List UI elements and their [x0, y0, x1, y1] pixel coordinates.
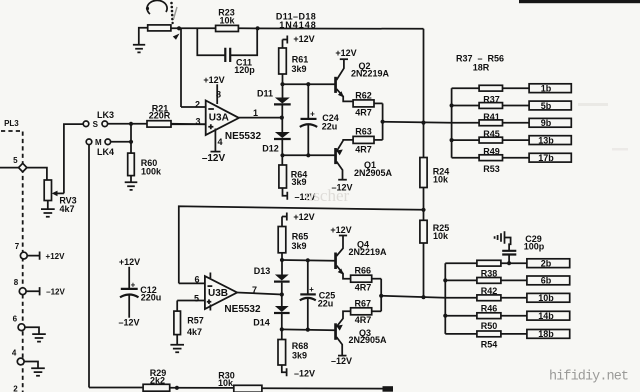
- resistor R49: [452, 137, 529, 156]
- diode D11: [257, 88, 291, 117]
- output node lower stage: [379, 279, 445, 312]
- svg-text:3k9: 3k9: [292, 350, 307, 360]
- svg-text:6: 6: [13, 314, 18, 323]
- output terminal 10b: [527, 293, 570, 303]
- wire to U3A pin2: [180, 28, 182, 107]
- resistor R21: [131, 104, 206, 128]
- svg-text:D13: D13: [254, 266, 271, 276]
- svg-text:18R: 18R: [473, 63, 490, 73]
- svg-text:4: 4: [217, 137, 222, 147]
- svg-text:R62: R62: [355, 90, 372, 100]
- svg-text:NE5532: NE5532: [224, 304, 261, 315]
- faint smudge right: [578, 103, 608, 106]
- transistor Q3: [331, 311, 387, 366]
- svg-text:5b: 5b: [541, 101, 552, 111]
- svg-text:7: 7: [252, 285, 257, 295]
- link LK3 S: [83, 110, 131, 129]
- svg-text:2N2905A: 2N2905A: [354, 168, 393, 178]
- capacitor C24: [300, 84, 339, 155]
- diode D14: [253, 295, 289, 330]
- svg-text:8: 8: [14, 278, 19, 287]
- svg-text:2b: 2b: [541, 259, 552, 269]
- U3B pin6: [179, 275, 205, 285]
- U3A pin8 +12V: [203, 75, 224, 104]
- svg-text:1: 1: [253, 108, 258, 118]
- output terminal 6b: [527, 276, 570, 286]
- svg-text:–12V: –12V: [331, 356, 352, 366]
- output terminal 13b: [529, 135, 571, 145]
- svg-text:U3A: U3A: [209, 113, 229, 124]
- svg-text:3: 3: [195, 117, 200, 127]
- ground (R60): [125, 182, 138, 190]
- svg-text:2N2219A: 2N2219A: [351, 68, 390, 78]
- resistor R38: [445, 260, 527, 278]
- svg-text:+: +: [310, 109, 315, 118]
- node pin7 junction: [280, 292, 284, 296]
- svg-text:4k7: 4k7: [187, 327, 202, 337]
- resistor R42: [445, 278, 527, 296]
- svg-text:8: 8: [216, 90, 221, 100]
- op-amp U3A: [206, 101, 262, 143]
- U3A pin3: [171, 117, 206, 127]
- svg-text:R67: R67: [355, 298, 372, 308]
- svg-text:D11: D11: [257, 88, 273, 98]
- bottom wire (inverting channel input): [89, 388, 383, 389]
- resistor R22 (unlabeled, input shunt): [139, 25, 171, 45]
- label D11-D18 1N4148: [276, 12, 317, 30]
- output terminal 17b: [529, 153, 571, 163]
- svg-text:R50: R50: [481, 321, 498, 331]
- transistor Q2: [334, 48, 389, 102]
- diode D13: [254, 266, 290, 295]
- svg-text:10k: 10k: [219, 15, 235, 25]
- resistor R61: [279, 48, 309, 98]
- output terminal 2b: [527, 259, 570, 269]
- svg-text:R53: R53: [483, 164, 500, 174]
- svg-text:2k2: 2k2: [150, 376, 165, 386]
- svg-text:5: 5: [194, 293, 199, 303]
- capacitor C11: [197, 28, 257, 75]
- wire feedback top node: [171, 27, 216, 29]
- ground (R57): [170, 345, 184, 353]
- svg-text:LK3: LK3: [97, 110, 114, 120]
- PL3 pin 6 ground: [13, 314, 46, 341]
- U3A pin4 -12V: [202, 129, 226, 165]
- svg-text:2N2219A: 2N2219A: [348, 247, 387, 257]
- svg-text:120p: 120p: [234, 65, 255, 75]
- svg-text:hifidiy.net: hifidiy.net: [549, 370, 629, 385]
- resistor R24: [420, 158, 449, 221]
- node Q2 base / wire: [280, 82, 334, 86]
- node R21/R60 junction: [129, 122, 133, 153]
- resistor R53: [452, 155, 529, 174]
- label R37 - R56 18R: [456, 53, 504, 72]
- resistor R54: [445, 331, 527, 349]
- link LK4 M: [86, 138, 131, 157]
- node Q4 base / wire: [280, 258, 335, 263]
- svg-text:4k7: 4k7: [59, 204, 74, 214]
- svg-text:6: 6: [194, 275, 199, 285]
- resistor R62: [353, 90, 383, 117]
- svg-text:R68: R68: [292, 341, 309, 351]
- svg-text:+12V: +12V: [46, 252, 66, 261]
- wire feedback vertical right: [421, 29, 425, 158]
- transistor Q1: [331, 140, 392, 193]
- output terminal 14b: [527, 311, 570, 321]
- U3B pin5: [177, 293, 205, 303]
- resistor R66: [351, 265, 382, 292]
- wire M-link down to bottom: [88, 145, 90, 388]
- svg-text:10k: 10k: [433, 231, 449, 241]
- op-amp U3B: [205, 273, 261, 316]
- svg-text:+: +: [309, 285, 314, 294]
- svg-text:14b: 14b: [538, 311, 554, 321]
- resistor R57: [174, 301, 204, 345]
- PL3 pin 8 -12V: [14, 278, 66, 296]
- svg-text:+12V: +12V: [330, 225, 351, 235]
- output terminal 1b: [529, 84, 571, 94]
- output terminal 5b: [529, 101, 571, 111]
- resistor R45: [452, 120, 529, 139]
- capacitor C25: [300, 260, 335, 329]
- U3A pin1 output wire: [239, 108, 284, 120]
- ground (RV3): [41, 201, 55, 217]
- wire R23 to node B: [238, 27, 423, 30]
- svg-text:1N4148: 1N4148: [279, 20, 317, 30]
- svg-text:U3B: U3B: [208, 288, 228, 299]
- svg-text:100k: 100k: [141, 166, 162, 176]
- svg-text:4R7: 4R7: [355, 282, 372, 292]
- node Q3 base / wire: [280, 327, 335, 331]
- pencil scribble mark top-left: [146, 0, 177, 24]
- resistor R29: [143, 368, 170, 391]
- U3B pin7 output: [237, 285, 282, 295]
- connector PL3 dashed outline: [1, 119, 23, 392]
- resistor stub cut at edge: [383, 386, 394, 392]
- svg-text:5: 5: [13, 156, 18, 165]
- svg-text:220R: 220R: [149, 110, 171, 120]
- svg-text:220u: 220u: [141, 293, 162, 303]
- svg-text:R63: R63: [355, 127, 372, 137]
- svg-text:22u: 22u: [322, 121, 338, 131]
- diode D12: [262, 118, 290, 165]
- svg-text:R57: R57: [187, 315, 204, 325]
- resistor R68: [278, 329, 315, 378]
- svg-text:R54: R54: [481, 339, 498, 349]
- U3A pin2: [181, 100, 206, 110]
- svg-text:LK4: LK4: [97, 147, 114, 157]
- PL3 pin 7 +12V: [15, 242, 65, 261]
- svg-text:+12V: +12V: [203, 75, 224, 85]
- svg-text:3k9: 3k9: [291, 64, 306, 74]
- node junction with arrow mark: [173, 26, 181, 40]
- svg-text:2N2905A: 2N2905A: [348, 335, 387, 345]
- svg-text:R46: R46: [481, 303, 498, 313]
- capacitor C12: [118, 257, 161, 328]
- svg-text:–12V: –12V: [46, 287, 65, 296]
- svg-text:4R7: 4R7: [355, 315, 372, 325]
- wire feedback to U3B: [179, 206, 424, 283]
- svg-text:–12V: –12V: [118, 318, 139, 328]
- transistor Q4: [330, 225, 387, 279]
- svg-text:–12V: –12V: [202, 153, 226, 164]
- svg-text:18b: 18b: [538, 329, 554, 339]
- svg-text:9b: 9b: [541, 118, 552, 128]
- svg-text:+12V: +12V: [293, 34, 314, 44]
- svg-text:+12V: +12V: [119, 257, 140, 267]
- svg-text:+: +: [131, 280, 136, 289]
- +12V rail top of R65: [282, 212, 315, 227]
- svg-text:7: 7: [15, 242, 20, 251]
- svg-text:22u: 22u: [318, 299, 334, 309]
- node R24/R25 junction: [421, 208, 425, 212]
- PL3 pin 5: [0, 156, 47, 180]
- node R29/R30 junction: [175, 386, 179, 390]
- svg-text:3k9: 3k9: [291, 241, 306, 251]
- svg-text:+12V: +12V: [335, 48, 356, 58]
- svg-text:D12: D12: [262, 144, 279, 154]
- PL3 pin 4 ground: [12, 349, 45, 376]
- resistor R65: [278, 227, 308, 275]
- resistor R64: [279, 165, 316, 202]
- resistor R60: [128, 153, 162, 182]
- svg-text:M: M: [95, 138, 102, 147]
- svg-text:10k: 10k: [218, 378, 234, 388]
- svg-text:+12V: +12V: [293, 212, 314, 222]
- svg-text:S: S: [93, 120, 99, 129]
- svg-text:D14: D14: [253, 317, 270, 327]
- top-right page border line: [519, 0, 640, 3]
- lower ladder bus: [443, 263, 447, 334]
- resistor R30: [218, 370, 262, 392]
- svg-text:uscher: uscher: [305, 186, 350, 205]
- resistor R25: [420, 220, 449, 297]
- svg-text:4: 4: [12, 349, 17, 358]
- ground (R22): [133, 45, 145, 53]
- resistor R37: [452, 85, 529, 104]
- svg-text:PL3: PL3: [4, 119, 19, 128]
- output terminal 9b: [529, 118, 571, 128]
- svg-text:6b: 6b: [541, 276, 552, 286]
- resistor R50: [445, 313, 527, 331]
- svg-text:4R7: 4R7: [355, 144, 372, 154]
- svg-text:17b: 17b: [538, 153, 554, 163]
- svg-text:2: 2: [13, 385, 18, 392]
- potentiometer RV3: [44, 124, 83, 214]
- resistor R23: [216, 7, 239, 31]
- svg-text:–12V: –12V: [294, 368, 315, 378]
- svg-text:1b: 1b: [541, 84, 552, 94]
- svg-text:100p: 100p: [524, 242, 545, 252]
- resistor R63: [353, 127, 383, 155]
- capacitor C29 with ground: [495, 231, 545, 265]
- svg-text:NE5532: NE5532: [225, 131, 262, 142]
- upper ladder bus: [450, 88, 454, 158]
- output terminal 18b: [527, 329, 570, 339]
- svg-text:2: 2: [195, 100, 200, 110]
- svg-text:13b: 13b: [538, 135, 554, 145]
- output node upper stage: [381, 103, 452, 139]
- resistor R41: [452, 103, 529, 122]
- svg-text:10k: 10k: [433, 174, 449, 184]
- svg-text:R65: R65: [292, 231, 309, 241]
- node Q1 base / wire: [280, 153, 334, 157]
- svg-text:10b: 10b: [538, 293, 554, 303]
- resistor R46: [445, 295, 527, 313]
- svg-text:4R7: 4R7: [355, 107, 372, 117]
- node B junction: [256, 26, 260, 30]
- resistor R67: [351, 298, 382, 325]
- +12V rail top of R61: [283, 34, 315, 48]
- svg-text:R66: R66: [355, 265, 372, 275]
